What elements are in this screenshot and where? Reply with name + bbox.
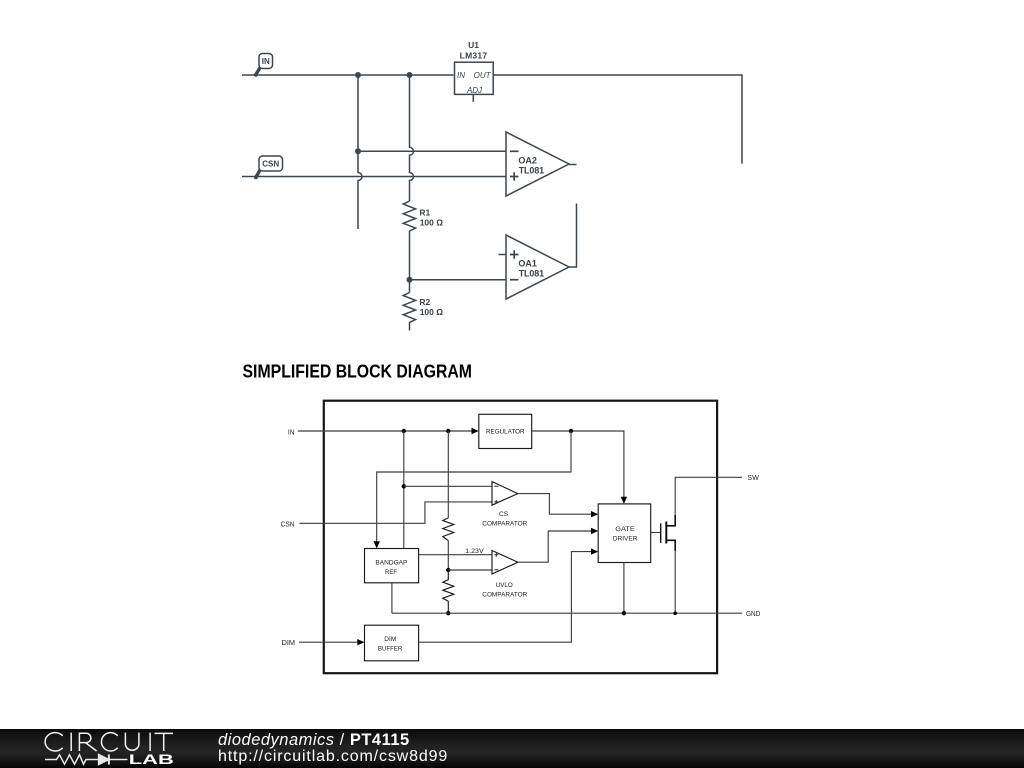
svg-text:OA2: OA2 [518, 156, 537, 166]
wire to UVLO minus [448, 569, 492, 571]
wire between resistor and junction [447, 541, 449, 570]
wire vertical resistor chain [447, 431, 449, 518]
svg-text:U1: U1 [468, 40, 479, 50]
wire SW net [675, 477, 742, 515]
wire IN main [242, 74, 454, 76]
block GATE DRIVER [598, 504, 651, 563]
wire to CS comparator minus [404, 485, 492, 487]
wire CSN to CS comparator plus [299, 502, 492, 523]
block BANDGAP REF [365, 549, 419, 583]
svg-text:COMPARATOR: COMPARATOR [482, 592, 527, 599]
resistor R1 100ohm [403, 201, 443, 231]
voltage regulator U1 LM317 [455, 40, 494, 102]
svg-text:BUFFER: BUFFER [378, 646, 403, 653]
wire gate lead [651, 532, 661, 534]
svg-text:GND: GND [746, 609, 761, 618]
junction R1R2 / OA1 minus wire [407, 277, 413, 283]
footer bar [0, 729, 1024, 768]
resistor lower [443, 570, 454, 613]
wire U1 OUT to right and down [493, 75, 742, 164]
svg-text:IN: IN [262, 57, 270, 66]
svg-text:1.23V: 1.23V [465, 548, 484, 555]
svg-text:REF: REF [385, 569, 397, 576]
svg-text:DRIVER: DRIVER [613, 536, 638, 543]
junction IN/bandgap vertical [402, 429, 406, 433]
svg-text:OUT: OUT [474, 71, 492, 80]
wire MOSFET source to GND rail [674, 551, 676, 614]
wire IN junction down to BANDGAP top [403, 431, 405, 549]
junction IN/vertical1 [355, 72, 361, 78]
svg-text:SW: SW [747, 473, 760, 482]
op-amp OA2 TL081 [506, 132, 577, 196]
wire CS output to GATE DRIVER [518, 494, 592, 515]
svg-text:CSN: CSN [281, 519, 295, 528]
arrowhead into REGULATOR [472, 428, 479, 434]
wire CSN to OA2 plus input [242, 176, 506, 178]
arrowhead DIM into GATE DRIVER [591, 548, 598, 554]
svg-text:GATE: GATE [615, 526, 635, 533]
UVLO comparator [482, 551, 527, 599]
arrowhead CS into GATE DRIVER [591, 511, 598, 517]
wire R1 bottom to R2 top [409, 231, 411, 293]
net flag IN [254, 54, 273, 77]
svg-text:R2: R2 [419, 297, 430, 307]
footer title text [218, 732, 410, 749]
wire OA1 minus input [410, 279, 507, 281]
svg-text:COMPARATOR: COMPARATOR [482, 521, 527, 528]
CS comparator [482, 482, 527, 528]
block diagram border [324, 401, 717, 674]
wire IN [298, 430, 473, 432]
arrowhead UVLO into GATE DRIVER [591, 528, 598, 534]
junction regulator-out/feedback [569, 429, 573, 433]
svg-text:TL081: TL081 [519, 269, 544, 279]
svg-text:REGULATOR: REGULATOR [486, 429, 525, 436]
wire BANDGAP bottom to GND rail [391, 583, 393, 613]
junction IN/resistor vertical [446, 429, 450, 433]
CircuitLab logo [0, 729, 200, 768]
svg-text:100 Ω: 100 Ω [420, 217, 444, 227]
junction on CS minus wire [402, 484, 406, 488]
junction source/GND rail [673, 611, 677, 615]
svg-text:LM317: LM317 [460, 51, 488, 61]
wire OA2 minus input [358, 150, 506, 152]
junction resistor/GND rail [446, 611, 450, 615]
wire DIM BUFFER to GATE DRIVER [419, 552, 592, 643]
svg-text:UVLO: UVLO [496, 582, 513, 589]
svg-text:100 Ω: 100 Ω [420, 307, 444, 317]
MOSFET switch [661, 515, 676, 551]
svg-text:CS: CS [499, 511, 509, 518]
svg-text:IN: IN [288, 427, 295, 436]
arrowhead into GATE DRIVER top [621, 497, 627, 504]
block DIM BUFFER [365, 625, 419, 661]
op-amp OA1 TL081 [499, 204, 577, 300]
svg-text:CSN: CSN [262, 160, 279, 169]
wire UVLO output to GATE DRIVER [518, 531, 592, 562]
svg-text:BANDGAP: BANDGAP [375, 560, 408, 567]
wire DIM into DIM BUFFER [299, 641, 358, 643]
block REGULATOR [479, 414, 532, 448]
svg-text:DIM: DIM [282, 638, 296, 647]
junction IN/vertical2 [407, 72, 413, 78]
wire BANDGAP to UVLO plus [419, 554, 492, 556]
resistor upper [443, 518, 454, 541]
wire vertical 2 (hops over OA2 minus wire and CSN wire) [410, 75, 414, 201]
junction UVLO minus [446, 568, 450, 572]
arrowhead into DIM BUFFER [357, 639, 364, 645]
wire REGULATOR out to GATE DRIVER top [532, 431, 624, 498]
svg-text:TL081: TL081 [519, 165, 544, 175]
svg-text:OA1: OA1 [518, 258, 537, 268]
svg-text:R1: R1 [419, 207, 430, 217]
net flag CSN [254, 156, 283, 179]
svg-text:ADJ: ADJ [466, 86, 483, 95]
svg-text:DIM: DIM [384, 636, 396, 643]
arrowhead into BANDGAP top [374, 541, 380, 548]
junction gate driver/GND rail [622, 611, 626, 615]
svg-text:SIMPLIFIED BLOCK DIAGRAM: SIMPLIFIED BLOCK DIAGRAM [243, 362, 473, 382]
svg-text:IN: IN [457, 71, 465, 80]
svg-text:LAB: LAB [129, 751, 174, 767]
junction vertical1 / OA2 minus wire [355, 148, 361, 154]
GND rail [392, 612, 742, 614]
resistor R2 100ohm [403, 293, 443, 331]
wire GATE DRIVER bottom to GND rail [623, 563, 625, 614]
wire vertical 1 (with hop over CSN wire) [358, 75, 362, 229]
footer url text [218, 749, 448, 765]
wire feedback to BANDGAP (down, left, down with arrow) [377, 431, 571, 543]
